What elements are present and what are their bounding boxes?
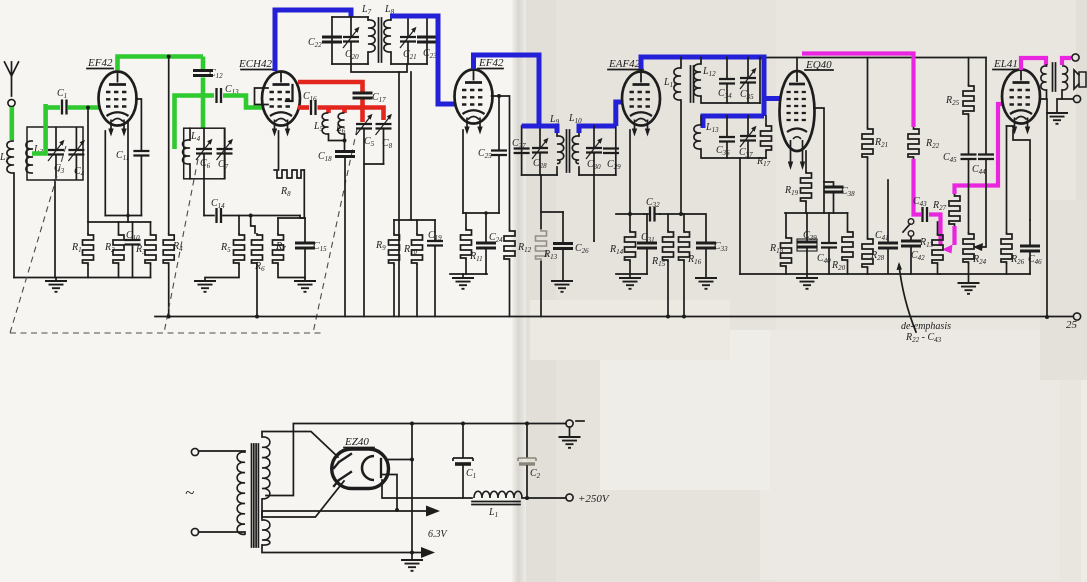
svg-text:ECH42: ECH42 [238,58,273,70]
capacitor C14 [217,208,222,223]
wire C26 bottom to ground [562,249,564,281]
wire C45 bottom to R24 [968,159,970,232]
wire R1 top stem (grid leak) [87,108,89,233]
wire R9 top joint [394,219,435,221]
antenna [5,62,19,96]
wire R21 rail [867,58,869,275]
wire C33 bottom to ground [705,249,707,279]
wire C46 bottom [1029,252,1031,275]
node heater rail [410,551,414,555]
wire R8 right leg down [300,170,304,218]
node C2 bottom [525,496,529,500]
wire magenta EQ40 anode bus [802,54,914,128]
wire green to C1 [44,105,60,110]
wire R26 bottom [1006,264,1008,274]
capacitor C6 (variable) [203,129,205,178]
svg-text:EL41: EL41 [993,58,1018,70]
wire L11 top stem [680,58,682,69]
resistor R22 [908,127,919,159]
resistor R17 [765,116,767,158]
capacitor C46 [1020,246,1040,251]
ground G3 [304,278,306,282]
triode plate bar inside ECH42 [286,85,293,101]
wire C39 stem [806,213,808,242]
node filament [395,508,399,512]
wire green antenna down [10,107,15,140]
node grid R1 [86,106,90,110]
magenta wiper arrow R13 [942,245,953,254]
resistor R25 [963,84,974,116]
tube ECH42 (converter) [262,72,300,137]
wire blue EF42 anode to IF2 [474,55,540,126]
ground G10 [1046,113,1068,124]
paper background right page (grayer) [524,0,1087,582]
capacitor C15 [295,243,315,248]
wire magenta EL41 anode to output transformer [1021,58,1046,70]
wire blue IF2 to EAF42 grid [616,102,622,126]
resistor R24 [963,232,974,264]
wire L2 bottom to ground bus [13,173,15,278]
wire C24 bottom to bus [485,248,487,274]
wire C42 bottom [910,247,912,275]
choke core lines [472,502,520,505]
node screen join [679,212,683,216]
resistor R9 [389,233,400,265]
wire blue IF2 left box top [522,126,557,133]
ground G11 [569,427,571,437]
rectifier EZ40 envelope [332,449,389,489]
coil L5 [322,113,328,134]
wire R7 top stem [277,218,279,233]
resistor R27 [954,186,956,194]
L13 box bottom [701,149,766,158]
tuned box 1 [27,127,83,180]
wire R14 C31 bottom bus to ground [616,274,647,278]
resistor R21 [862,127,873,159]
coil L2 [7,141,14,173]
wire green anode to top bus [118,57,204,71]
wire R4 bottom to main bus [168,265,170,317]
wire bottom link bus y274 [740,273,868,275]
ground G12 [401,560,423,571]
wire C24 top stem [485,213,487,243]
IF1 primary box top [332,16,368,18]
dashed gang bar [10,332,321,334]
capacitor C3 (variable) [55,128,57,179]
wire C19 stem [434,220,436,241]
transformer core [252,444,259,547]
capacitor C35 (variable) [747,58,749,104]
wire C1 bottom [462,466,464,498]
wire R3 bottom [150,265,152,278]
wire C26 top stem [562,212,564,243]
IF2 right box right edge [615,126,617,175]
resistor R1 [83,233,94,265]
IF2 left box left edge [521,126,523,175]
coil L9 [556,126,558,175]
wire box1 bottom to ground bus [54,180,56,278]
svg-text:EZ40: EZ40 [344,436,369,448]
wire EL41 grid side down to bus [1041,99,1048,317]
wire B+ from tube [382,480,472,498]
wire IF2 right box bottom down [593,175,595,241]
capacitor C26 [553,244,573,249]
wire R18 stem [785,213,787,236]
terminal +250V [566,494,573,501]
coil L12 [700,58,702,65]
resistor R6 [252,233,263,265]
IF2 left box bottom [522,174,557,176]
wire R19 top stem [805,151,807,171]
capacitor C30 (variable) [593,126,595,175]
wire green into box1 [32,104,46,154]
ground bus PSU top [293,423,566,425]
ground G7 [695,278,717,289]
ground G5 [551,281,573,292]
wire secondary bottom to terminal [1062,90,1073,99]
terminal minus [566,420,573,427]
resistor R16 [679,230,690,262]
svg-text:25: 25 [1066,319,1078,331]
wire C41 stem [887,180,889,243]
capacitor C38 [824,187,844,192]
capacitor C42 [901,241,921,246]
HV secondary coil [262,437,270,499]
wire IF1 to AGC rail [398,72,400,317]
wire filament tap down [382,475,397,511]
wire magenta secondary top to terminal [1062,58,1071,65]
wire C10 stems [132,222,134,278]
capacitor C37 (variable) [747,116,749,158]
coil L10 [578,126,580,175]
wire HV top tap to anode [262,432,338,458]
capacitor C11 [133,151,149,156]
wire green C12 branch [201,57,206,70]
resistor R18 [781,236,792,268]
wire R19 bottom [805,203,807,213]
capacitor C12 [193,71,213,76]
IF3 box right edge [759,58,761,104]
ground G9 [968,274,970,283]
node R6 bus [255,315,259,319]
tube EF42 (IF amp) [455,70,493,135]
black wiper arrow R24 [973,243,983,251]
wire heater line 2 with arrow [262,545,423,553]
tube EL41 [1002,70,1040,135]
wire red stub L6 [342,108,347,114]
node C14 bus [249,214,253,218]
wire R10 bottom [416,265,418,317]
wire IF2 left box bottom down [540,175,542,317]
heater winding 6.3V [262,520,270,545]
wire L5 bottom to C18 [329,134,345,141]
wire R11 top stem [465,213,467,228]
wire R7 bottom [278,265,305,278]
ground G4 [462,274,464,278]
resistor R28 [862,237,873,269]
label minus [576,420,584,422]
wire blue ECH42 anode up to IF1 [275,10,351,71]
coil L8 [390,17,392,64]
resistor R7 [273,233,284,265]
IF1 primary box left edge [331,17,333,64]
resistor R12 [504,229,515,261]
capacitor C29 [603,149,619,154]
capacitor C1 [62,100,67,115]
capacitor C27 [514,149,530,154]
wire EAF42 anode stem [640,58,642,72]
capacitor C25 [491,151,507,156]
tuned box 2 [184,128,225,179]
capacitor C23 [417,37,437,42]
wire EF42 cathode down [462,130,464,213]
resistor R19 [801,171,812,203]
wire EAF42 cathode down [629,130,631,214]
node cathode bus [126,214,130,218]
coil L13 [700,116,702,125]
wire C38 bottom [833,193,835,214]
choke L1 [474,491,522,498]
wire R1 bottom [87,265,89,278]
wire blue detector tank top [703,116,764,128]
wire green to L4 [175,96,206,150]
EZ40 cathode arc [362,456,374,480]
resistor R4 [163,233,174,265]
capacitor C33 [696,243,716,248]
wire switch to C42 [910,237,912,241]
wire cathode bus y213 [463,212,499,214]
de-emphasis pointer line [899,265,916,332]
wire blue detector branch to EQ40 grid [764,96,780,101]
IF3 box bottom [701,96,760,103]
wire R2 top stem [118,222,120,233]
ground bus left [14,277,151,279]
wire C2 bottom [526,466,528,498]
wire mains bottom [199,532,246,534]
main bottom bus [155,316,1073,318]
wire magenta C43 to pot R13 [929,215,941,247]
wire C5 C8 bottom link [364,163,384,165]
wire green C13 to ECH42 grid [223,96,263,108]
capacitor C8 (variable) [376,114,393,135]
wire R5 top stem [238,216,240,234]
wire L6 bottom to C18 [344,134,346,151]
svg-text:EAF42: EAF42 [608,58,641,70]
terminal output bottom [1073,95,1080,102]
wire ECH42 cathode to R8 [278,131,280,170]
wire EQ40 diode plate to divider [814,108,824,213]
dashed gang line 1 [10,146,66,333]
resistor R15 [663,230,674,262]
resistor R10 [412,233,423,265]
wire blue EAF42 anode to detector [641,57,764,116]
wire red below C17 [360,100,365,123]
wire R16 bottom to main bus [683,262,685,317]
capacitor C36 [726,116,728,158]
B+ top bus right [641,57,986,59]
IF2 right box bottom [579,174,616,176]
wire OT bottom junction to ground [1057,99,1062,113]
PSU mains terminal 2 [191,528,198,535]
svg-text:EF42: EF42 [478,57,504,69]
wire C1 stem [462,424,464,458]
tube EF42 (RF amp) [99,72,137,137]
resistor R13 (volume pot) [937,222,939,233]
capacitor C39 [797,242,817,247]
wire C44 bottom to tone pot wiper [981,159,986,247]
wire C11 down [140,156,142,216]
wire C2 stem [526,424,528,458]
coil L4 [189,128,191,179]
ground G8 [806,274,808,278]
capacitor C34b [726,58,728,104]
wire magenta R22 to C43 [914,159,922,215]
resistor R3 [145,233,156,265]
wire HV center tap to ground bus [266,424,293,496]
wire EQ40 anode stem [796,58,798,72]
capacitor C21 (variable) [407,17,409,64]
wire C25 top lead [498,96,500,150]
wire R15 bottom to main bus [667,262,669,317]
node cathode rail [410,458,414,462]
wire box2 bottom stem [203,179,205,216]
output transformer secondary coil [1062,66,1068,90]
resistor R14 [625,230,636,262]
wire R10 stem [416,220,418,233]
wire R11 bottom to ground [465,260,467,274]
terminal bus 25 [1073,313,1080,320]
wire mains top [199,451,246,452]
wire screen node [492,95,510,97]
resistor R2 [113,233,124,265]
node bus x169 [167,315,171,319]
ground G1 [55,278,57,282]
tube EAF42 [622,72,660,137]
wire R13 bottom [937,265,939,274]
wire C14 lead right [223,215,300,217]
wire C25 bottom lead [498,156,500,213]
wire L11 bottom down [680,100,682,214]
wire R6 bottom to main bus [256,265,258,317]
right page mottling [540,20,660,110]
wire under IF1 [351,64,407,72]
capacitor C10 [125,240,141,245]
capacitor C24 [476,243,496,248]
wire R2 bottom [118,265,120,278]
IF1 secondary box bottom [391,63,427,65]
resistor R13 (faint) [536,229,547,261]
wire C14 lead left [204,215,214,217]
svg-text:de-emphasis: de-emphasis [901,321,951,332]
node R15 bus [666,315,670,319]
wire HV bottom tap to anode [262,481,344,517]
svg-text:~: ~ [185,483,194,502]
transformer primary coil [237,452,245,535]
resistor R26 [1001,232,1012,264]
capacitor C16 [311,100,316,115]
wire rail x411 [410,72,412,220]
svg-text:EF42: EF42 [87,57,113,69]
output transformer core [1053,63,1056,91]
wire blue IF2 right box top [579,126,616,133]
resistor R8 (horizontal) [273,170,304,178]
svg-text:6.3V: 6.3V [428,529,449,540]
dashed gang line 3 [313,129,357,333]
wire heater line 1 with arrow [262,511,428,520]
wire R20 bottom [847,262,849,274]
wire cathode node bus y213 [785,212,848,214]
page fold crease [512,0,526,582]
wire cathode bus [105,215,141,217]
wire R18 bottom [785,268,787,274]
wire screen grid right side [136,99,141,151]
wire C30 bottom link [593,240,595,242]
wire divider bottom bus [450,273,487,275]
IF1 secondary box right edge [426,17,428,64]
wire red triode grid top [298,82,363,92]
node cathode [628,212,632,216]
wire C40 stem [828,213,830,243]
capacitor C4 (variable) [75,128,77,179]
wire R top bus [88,221,151,223]
output transformer primary coil [1046,65,1048,99]
capacitor C45 [961,155,977,160]
tube EQ40 [780,71,815,170]
wire C26 top link [541,211,563,213]
wire R7 C15 top bus [278,217,305,219]
wire R9 stem [393,220,395,233]
wire cathode to rail [386,459,412,461]
node screen [497,94,501,98]
wire B+ feed vertical [168,57,170,234]
wire C41 bottom [868,248,941,274]
capacitor C44 [978,155,994,160]
capacitor C40 [821,243,837,248]
capacitor C28 (variable) [539,126,541,175]
wire R5 bottom to ground [205,265,239,281]
capacitor C41 [878,243,898,248]
wire screen rail down [509,96,511,317]
coil L7 [367,17,369,64]
wire C33 stem [684,214,706,243]
node rail top [410,422,414,426]
wire center rail to ground [411,424,413,561]
node L6 C18 [343,139,347,143]
resistor R11 [461,228,472,260]
PSU mains terminal 1 [191,448,198,455]
wire green below C12 [201,78,206,129]
wire magenta R27 top to EL41 grid [955,104,1004,194]
IF3 core [691,66,694,102]
wire R14 bottom [629,262,631,274]
wire R6 top stem [251,216,255,234]
wire R16 stem [683,214,685,230]
wire C5 bottom to main bus [363,129,365,317]
wire R26 top stem [1006,126,1008,232]
antenna terminal [8,99,15,106]
wire R14 stem [629,214,631,230]
wire green to C13 [203,93,214,98]
switch contact circles [908,219,914,225]
capacitor C43 [923,207,928,222]
wire L13 box bottom down [739,158,741,274]
IF1 core [379,18,382,62]
svg-text:+250V: +250V [578,493,610,505]
IF1 primary box bottom [332,63,368,65]
node R16 bus [682,315,686,319]
wire cathode down [104,131,106,216]
IF2 core [567,130,570,172]
